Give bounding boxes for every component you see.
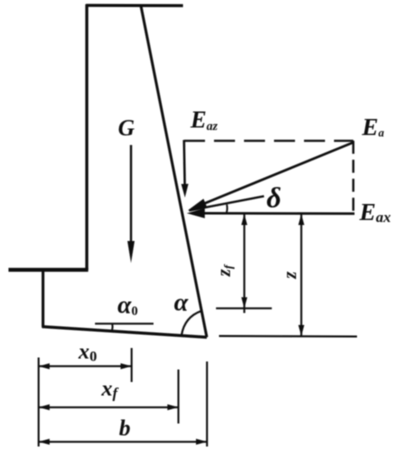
alpha0 angle tick	[111, 324, 113, 331]
ground line left	[9, 268, 89, 272]
svg-text:b: b	[119, 416, 131, 441]
svg-text:δ: δ	[267, 182, 282, 214]
svg-text:Ea: Ea	[361, 114, 384, 141]
svg-text:xf: xf	[101, 376, 120, 403]
delta angle reference line	[189, 196, 264, 210]
wall left face	[85, 4, 88, 270]
alpha0 reference line	[95, 323, 154, 325]
force G arrow	[127, 145, 134, 263]
svg-text:z: z	[281, 271, 301, 280]
dimension line z	[298, 214, 304, 336]
svg-text:α0: α0	[118, 292, 138, 319]
dimension line zf	[241, 214, 247, 313]
dashed box right edge	[352, 141, 354, 214]
svg-text:Eaz: Eaz	[190, 108, 218, 134]
extension line x0 right	[131, 348, 133, 382]
wall base line	[42, 327, 207, 338]
svg-text:Eax: Eax	[359, 199, 392, 226]
svg-text:x0: x0	[78, 339, 98, 365]
extension line xf right	[177, 370, 179, 424]
extension line b right	[206, 362, 208, 447]
alpha angle arc	[182, 311, 202, 336]
wall back face	[141, 6, 207, 337]
delta angle arc	[225, 205, 228, 214]
svg-text:zf: zf	[215, 264, 235, 277]
dimension line x0	[39, 363, 132, 369]
force Eaz arrow (left edge of dashed box)	[181, 140, 188, 198]
dashed box top edge	[184, 140, 353, 142]
force Eax arrow (horizontal)	[187, 208, 355, 218]
z bottom reference line	[219, 335, 357, 338]
wall top edge	[86, 4, 183, 7]
dimension line b	[39, 439, 207, 445]
zf bottom reference line	[216, 307, 272, 309]
dimension extension line left (common)	[38, 358, 40, 447]
svg-text:G: G	[118, 115, 135, 140]
svg-text:α: α	[174, 288, 189, 317]
force Ea arrow (resultant, diagonal)	[188, 143, 353, 211]
dimension line xf	[39, 404, 179, 410]
footing left face	[42, 269, 45, 328]
